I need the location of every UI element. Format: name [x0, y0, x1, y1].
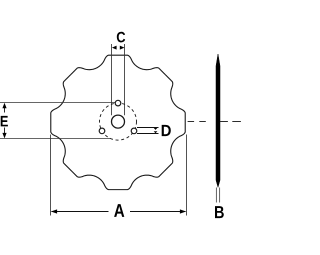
dashed centerline to edge view [188, 121, 241, 123]
extension line E bottom (tangent to bolt circle bottom) [0, 138, 111, 140]
edge view blade cross-section (solid) [216, 54, 220, 187]
arrowhead E down [2, 133, 6, 139]
dimension A line [52, 211, 186, 213]
arrowhead D up [154, 128, 158, 130]
arrowhead A left [51, 209, 57, 213]
center hole [112, 115, 125, 128]
arrowhead D down [154, 131, 158, 133]
bolt hole lower-right [131, 128, 137, 134]
dimension D tangent lines [137, 128, 159, 134]
bolt hole lower-left [99, 128, 105, 134]
bolt circle (dashed) [100, 103, 137, 140]
disc outline (scalloped blade, 8 lobes) [51, 55, 185, 189]
edge view bevel fork left [215, 188, 217, 203]
label E [1, 116, 8, 127]
dimension C extension lines (center hole tangents) [112, 44, 125, 115]
label A [114, 204, 124, 217]
arrowhead A right [180, 209, 186, 213]
label D [162, 125, 171, 136]
dimension A extension line right [186, 135, 188, 216]
dimension A extension line left [50, 135, 52, 216]
label B [215, 206, 224, 218]
edge view bevel fork right [219, 188, 221, 203]
arrowhead C right [120, 46, 125, 50]
bolt hole top [115, 100, 121, 106]
extension line E top (through top bolt hole) [0, 102, 115, 104]
arrowhead C left [112, 46, 117, 50]
dimension E vertical line with arrows [4, 105, 6, 137]
label C [117, 32, 125, 43]
arrowhead E up [2, 103, 6, 109]
